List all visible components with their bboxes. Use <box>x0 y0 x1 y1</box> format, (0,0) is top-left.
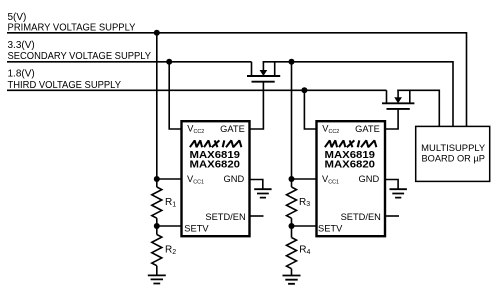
wire U2 GND pin to ground <box>386 180 399 190</box>
U1 pin label VCC2 <box>187 124 204 135</box>
wire U2 VCC1 / R3 divider from secondary rail <box>291 62 293 187</box>
U1 pin label SETD/EN <box>205 212 245 222</box>
R3 value label <box>299 197 310 208</box>
svg-text:SETV: SETV <box>184 224 209 234</box>
wire Q1 gate to U1 GATE pin <box>250 82 263 129</box>
U2 pin label VCC2 <box>322 124 339 135</box>
wire U1 VCC1 / R1 divider from primary rail <box>156 33 158 187</box>
wire R1 bottom to SETV node <box>156 218 158 234</box>
multisupply board label <box>421 143 485 163</box>
wire secondary 3.3V rail left segment <box>7 61 252 63</box>
logo MAXIM in U2 <box>325 140 377 147</box>
wire U2 SETV pin <box>292 225 317 227</box>
multisupply board box <box>416 126 490 181</box>
resistor R1 <box>152 187 162 218</box>
svg-text:GATE: GATE <box>355 124 380 134</box>
wire U2 SETD/EN pin stub <box>386 215 400 217</box>
svg-text:PRIMARY VOLTAGE SUPPLY: PRIMARY VOLTAGE SUPPLY <box>8 22 136 33</box>
junction dot primary rail / R1 divider <box>154 30 160 36</box>
wire U2 VCC2 from third rail <box>304 90 316 129</box>
wire U2 VCC1 pin to divider node <box>292 178 317 180</box>
wire third 1.8V rail right segment to multisupply board <box>397 90 439 126</box>
svg-text:GATE: GATE <box>220 124 245 134</box>
junction dot U1 VCC1 / R1 top <box>154 176 160 182</box>
resistor R2 <box>152 235 162 266</box>
wire U1 VCC2 from secondary rail <box>169 62 181 129</box>
node 1.8V third supply label <box>8 69 122 91</box>
wire Q2 gate to U2 GATE pin <box>386 109 399 129</box>
U2 pin label SETD/EN <box>341 212 381 222</box>
node 3.3V secondary supply label <box>8 40 152 62</box>
ground at U2 GND <box>390 189 407 197</box>
svg-text:MAX6820: MAX6820 <box>325 159 376 170</box>
node 5V primary supply label <box>8 12 136 33</box>
U2 pin label GND <box>359 174 380 184</box>
op-amp U1 MAX6819/MAX6820 box <box>182 121 250 236</box>
wire U1 SETD/EN pin stub <box>250 215 264 217</box>
wire primary 5V rail to multisupply board <box>7 33 467 127</box>
svg-text:GND: GND <box>359 174 380 184</box>
junction dot third rail / U2 VCC2 <box>301 87 307 93</box>
transistor Q2 p-channel MOSFET in third rail <box>382 90 414 109</box>
wire U1 GND pin to ground <box>250 180 263 190</box>
junction dot secondary rail / U1 VCC2 <box>166 59 172 65</box>
wire secondary 3.3V rail right segment to multisupply board <box>263 62 453 127</box>
wire U1 VCC1 pin to divider node <box>157 178 181 180</box>
resistor R4 <box>287 238 297 269</box>
svg-text:1.8(V): 1.8(V) <box>8 69 35 80</box>
R4 value label <box>299 244 310 255</box>
svg-text:3.3(V): 3.3(V) <box>8 40 35 51</box>
svg-text:BOARD OR µP: BOARD OR µP <box>421 154 485 164</box>
logo MAXIM in U1 <box>190 140 242 147</box>
junction dot R1/R2/SETV <box>154 223 160 229</box>
ground below R2 <box>148 275 166 283</box>
U2 pin label SETV <box>318 224 343 234</box>
U1 pin label GND <box>224 174 245 184</box>
U2 pin label GATE <box>355 124 380 134</box>
svg-text:SETV: SETV <box>318 224 343 234</box>
U2 part number MAX6820 <box>325 159 376 170</box>
junction dot secondary rail / R3 divider <box>289 59 295 65</box>
svg-text:GND: GND <box>224 174 245 184</box>
wire R2 bottom to ground <box>156 266 158 276</box>
U1 pin label VCC1 <box>187 174 204 185</box>
svg-text:SETD/EN: SETD/EN <box>205 212 245 222</box>
U1 part number MAX6819 <box>190 150 241 161</box>
U2 part number MAX6819 <box>325 150 376 161</box>
R2 value label <box>165 244 176 255</box>
U1 pin label SETV <box>184 224 209 234</box>
wire third 1.8V rail left segment <box>7 89 387 91</box>
op-amp U2 MAX6819/MAX6820 box <box>317 121 386 236</box>
transistor Q1 p-channel MOSFET in secondary rail <box>247 62 280 82</box>
wire R3 bottom to SETV node <box>291 218 293 237</box>
svg-text:MAX6820: MAX6820 <box>190 159 241 170</box>
R1 value label <box>165 197 176 208</box>
junction dot U2 VCC1 / R3 top <box>289 176 295 182</box>
U2 pin label VCC1 <box>322 174 339 185</box>
svg-text:SECONDARY VOLTAGE SUPPLY: SECONDARY VOLTAGE SUPPLY <box>8 51 152 62</box>
svg-text:MULTISUPPLY: MULTISUPPLY <box>421 143 485 153</box>
U1 part number MAX6820 <box>190 159 241 170</box>
resistor R3 <box>287 187 297 218</box>
U1 pin label GATE <box>220 124 245 134</box>
ground below R4 <box>283 276 301 284</box>
svg-text:SETD/EN: SETD/EN <box>341 212 381 222</box>
wire U1 SETV pin <box>157 225 181 227</box>
wire R4 bottom to ground <box>291 269 293 276</box>
ground at U1 GND <box>254 189 271 197</box>
svg-text:THIRD VOLTAGE SUPPLY: THIRD VOLTAGE SUPPLY <box>8 80 122 91</box>
junction dot R3/R4/SETV <box>289 223 295 229</box>
